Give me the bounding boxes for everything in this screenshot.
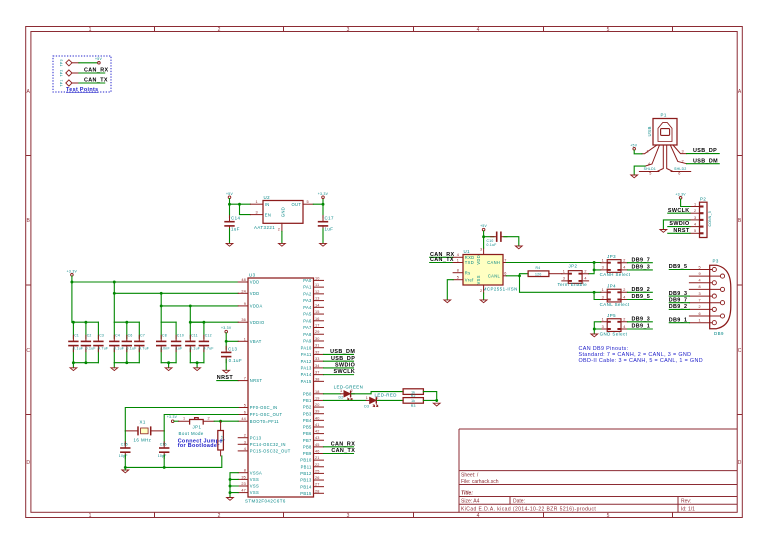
- svg-text:C14: C14: [231, 215, 241, 220]
- wire CANL to JP4 pin3: [594, 292, 601, 299]
- svg-text:5: 5: [694, 229, 696, 233]
- wire JP4 out 4: [628, 299, 653, 301]
- test point TP2: [59, 69, 79, 76]
- junction: [163, 466, 166, 469]
- svg-text:27: 27: [315, 483, 320, 487]
- svg-text:1: 1: [89, 27, 92, 33]
- junction: [189, 321, 192, 324]
- svg-text:C10: C10: [487, 239, 494, 243]
- svg-text:4: 4: [623, 266, 625, 270]
- wire CANH to JP3 pin3 / JP2: [589, 263, 601, 274]
- U3 pin 21 PB10: [300, 456, 323, 463]
- svg-text:3: 3: [682, 149, 684, 153]
- junction: [160, 292, 163, 295]
- svg-text:CANL: CANL: [488, 273, 501, 278]
- ground: [433, 403, 440, 406]
- svg-text:Rev:: Rev:: [681, 499, 691, 505]
- svg-text:13: 13: [315, 297, 320, 301]
- P3 pin 2: [689, 305, 712, 309]
- svg-text:VSS: VSS: [250, 477, 259, 482]
- svg-text:38: 38: [315, 377, 320, 381]
- svg-text:1: 1: [602, 318, 604, 322]
- wire LED to R2: [351, 392, 403, 394]
- wire group 4 gnd stub: [196, 363, 198, 368]
- wire C10 to gnd: [504, 237, 519, 246]
- wire R3 to gnd: [423, 399, 436, 401]
- junction: [125, 321, 128, 324]
- wire VBUS: [634, 150, 642, 154]
- wire USB_DP: [687, 153, 720, 155]
- svg-text:31: 31: [315, 344, 320, 348]
- svg-text:D: D: [26, 460, 30, 466]
- test point TP1: [59, 79, 79, 86]
- junction: [238, 203, 241, 206]
- svg-text:0.1uF: 0.1uF: [487, 243, 497, 247]
- svg-text:PB8: PB8: [303, 444, 312, 449]
- svg-text:IN: IN: [265, 202, 270, 207]
- junction: [113, 292, 116, 295]
- svg-text:PB11: PB11: [301, 464, 312, 469]
- svg-text:VDD: VDD: [250, 280, 260, 285]
- svg-text:3: 3: [602, 295, 604, 299]
- junction: [72, 361, 75, 364]
- svg-text:C1: C1: [74, 334, 79, 338]
- svg-text:PA15: PA15: [301, 379, 312, 384]
- wire CANL: [506, 274, 600, 293]
- ground: [591, 334, 598, 337]
- svg-text:PB12: PB12: [300, 471, 312, 476]
- svg-text:120: 120: [535, 272, 542, 276]
- ground: [444, 300, 451, 303]
- svg-text:VDD: VDD: [250, 291, 260, 296]
- svg-text:MCP2551-I/SN: MCP2551-I/SN: [483, 287, 518, 292]
- junction: [593, 291, 596, 294]
- resistor R3: [403, 398, 423, 409]
- U3 pin 8 VSSA: [238, 469, 262, 476]
- svg-text:1: 1: [647, 150, 649, 154]
- svg-text:+5V: +5V: [480, 224, 487, 228]
- wire SWCLK: [324, 374, 354, 376]
- svg-text:USB_DP: USB_DP: [331, 356, 355, 362]
- svg-text:File: carhack.sch: File: carhack.sch: [461, 479, 499, 485]
- svg-text:STM32F042C6T6: STM32F042C6T6: [245, 499, 286, 504]
- svg-text:5: 5: [699, 265, 701, 269]
- svg-text:PB13: PB13: [300, 478, 312, 483]
- svg-text:DB9_1: DB9_1: [669, 317, 688, 323]
- U3 pin 33 PA12: [301, 357, 324, 364]
- power +5V: [95, 57, 102, 64]
- svg-text:15: 15: [315, 310, 320, 314]
- wire VSS rail: [230, 473, 238, 498]
- svg-text:PA3: PA3: [303, 298, 312, 303]
- U3 pin 9 VDDA: [238, 302, 262, 309]
- svg-text:1uF: 1uF: [231, 227, 240, 232]
- svg-text:18: 18: [315, 390, 320, 394]
- svg-text:6: 6: [504, 272, 506, 276]
- svg-text:Test Points: Test Points: [66, 87, 99, 93]
- svg-text:5: 5: [649, 172, 651, 176]
- wire CAN_RX: [430, 256, 453, 258]
- svg-text:CANL Select: CANL Select: [600, 302, 630, 307]
- svg-text:1: 1: [256, 200, 258, 204]
- junction: [219, 420, 222, 423]
- svg-text:3: 3: [694, 216, 696, 220]
- svg-text:Size: A4: Size: A4: [461, 499, 480, 505]
- junction: [593, 328, 596, 331]
- U3 pin 37 PA14: [301, 371, 324, 378]
- wire DB9 pin 7: [669, 302, 689, 304]
- svg-text:TP1: TP1: [59, 79, 63, 86]
- svg-text:37: 37: [315, 371, 320, 375]
- svg-text:VDD: VDD: [476, 255, 481, 265]
- svg-text:2: 2: [351, 389, 353, 393]
- wire VDD rail 1: [72, 276, 238, 322]
- svg-text:C8: C8: [162, 334, 167, 338]
- svg-text:PB3: PB3: [303, 411, 312, 416]
- svg-text:23: 23: [241, 482, 246, 486]
- wire group 3 gnd stub: [168, 363, 170, 368]
- svg-text:0.1uF: 0.1uF: [86, 346, 96, 350]
- svg-text:+3.3V: +3.3V: [67, 269, 78, 273]
- svg-text:D2: D2: [339, 396, 344, 400]
- svg-text:SHLD2: SHLD2: [674, 167, 686, 171]
- U3 pin 25 PB12: [300, 469, 323, 476]
- wire C17 to gnd: [322, 229, 324, 243]
- wire CAN_TX: [324, 453, 354, 455]
- svg-text:9: 9: [244, 302, 246, 306]
- svg-text:32: 32: [315, 350, 320, 354]
- svg-text:4: 4: [477, 513, 480, 519]
- svg-text:DB9_7: DB9_7: [632, 257, 651, 263]
- svg-text:3: 3: [347, 27, 350, 33]
- U3 pin 11 PA1: [303, 283, 323, 290]
- U3 pin 30 PA9: [303, 337, 323, 344]
- svg-text:VSS: VSS: [250, 484, 259, 489]
- svg-text:6: 6: [244, 411, 246, 415]
- svg-text:0.1uF: 0.1uF: [73, 346, 83, 350]
- svg-text:1: 1: [602, 288, 604, 292]
- svg-text:36: 36: [241, 318, 246, 322]
- svg-text:6: 6: [699, 312, 701, 316]
- U3 pin 23 VSS: [238, 482, 259, 489]
- svg-text:C15: C15: [121, 443, 128, 447]
- U3 pin 45 PB8: [303, 443, 324, 450]
- capacitor C10: [171, 322, 184, 363]
- svg-text:5: 5: [457, 276, 459, 280]
- wire DB9 pin 1: [669, 322, 689, 324]
- svg-text:PA1: PA1: [303, 285, 312, 290]
- svg-text:JP1: JP1: [193, 425, 202, 430]
- svg-text:35: 35: [241, 475, 246, 479]
- svg-text:2: 2: [480, 289, 482, 293]
- svg-text:39: 39: [315, 410, 320, 414]
- svg-text:+5V: +5V: [95, 57, 102, 61]
- wire cap group 3 rails: [161, 322, 176, 363]
- junction: [70, 281, 73, 284]
- wire Vref to gnd: [447, 280, 453, 300]
- wire JP1 to BOOT0: [214, 420, 238, 422]
- svg-text:7: 7: [244, 377, 246, 381]
- svg-text:12: 12: [315, 290, 320, 294]
- svg-text:TP2: TP2: [59, 69, 63, 76]
- diode D2 LED-GREEN: [334, 385, 364, 400]
- svg-text:48: 48: [241, 278, 246, 282]
- svg-text:CAN_RX: CAN_RX: [331, 441, 355, 447]
- svg-text:42: 42: [315, 430, 320, 434]
- svg-text:Term Enable: Term Enable: [558, 282, 588, 287]
- U3 pin 16 PA6: [303, 317, 323, 324]
- svg-text:PB14: PB14: [300, 484, 312, 489]
- junction: [229, 491, 232, 494]
- junction: [229, 478, 232, 481]
- ground: [194, 368, 201, 371]
- wire VDDA rail: [161, 293, 238, 322]
- wire C14 to gnd: [229, 229, 231, 243]
- U3 pin 27 PB14: [300, 483, 323, 490]
- resistor R1: [218, 421, 224, 456]
- svg-text:0.1uF: 0.1uF: [190, 346, 200, 350]
- svg-text:3: 3: [244, 440, 246, 444]
- svg-text:2: 2: [623, 318, 625, 322]
- svg-text:4: 4: [623, 295, 625, 299]
- svg-text:10pF: 10pF: [119, 454, 128, 458]
- ground: [223, 370, 230, 373]
- svg-text:PB0: PB0: [303, 391, 312, 396]
- U3 pin 48 VDD: [238, 278, 259, 285]
- ground: [111, 368, 118, 371]
- svg-text:1: 1: [694, 202, 696, 206]
- junction: [593, 268, 596, 271]
- svg-text:DB9: DB9: [714, 331, 724, 336]
- wire R2 to gnd: [423, 392, 436, 402]
- wire USB gnd: [634, 166, 645, 175]
- junction: [229, 485, 232, 488]
- ground: [279, 243, 286, 246]
- connector P2: [690, 196, 712, 237]
- svg-text:1: 1: [340, 389, 342, 393]
- svg-text:C10: C10: [177, 334, 184, 338]
- junction: [518, 274, 521, 277]
- svg-text:21: 21: [315, 456, 320, 460]
- svg-text:+3.3V: +3.3V: [167, 415, 178, 419]
- svg-text:DB9_3: DB9_3: [632, 265, 651, 271]
- svg-text:CANH Select: CANH Select: [600, 272, 631, 277]
- svg-text:2: 2: [623, 259, 625, 263]
- svg-text:R4: R4: [536, 266, 541, 270]
- U3 pin 10 PA0: [303, 276, 323, 283]
- svg-text:VDDA: VDDA: [250, 304, 263, 309]
- svg-text:2: 2: [584, 270, 586, 274]
- svg-text:1: 1: [244, 337, 246, 341]
- svg-text:5: 5: [607, 27, 610, 33]
- ground: [227, 498, 234, 501]
- capacitor C16: [158, 431, 170, 458]
- svg-text:PA0: PA0: [303, 278, 312, 283]
- svg-text:Vref: Vref: [465, 277, 474, 282]
- wire CANH: [506, 262, 600, 264]
- wire JP3 out 2: [628, 262, 653, 264]
- wire VBAT: [226, 333, 238, 349]
- wire EN feed: [240, 204, 251, 214]
- svg-text:20: 20: [315, 403, 320, 407]
- svg-text:10: 10: [315, 276, 320, 280]
- svg-text:USB_DP: USB_DP: [693, 148, 717, 154]
- U3 pin 20 PB2: [303, 403, 324, 410]
- jumper JP1 Boot Mode: [179, 417, 215, 436]
- svg-text:+3.3V: +3.3V: [675, 192, 686, 196]
- svg-text:41: 41: [315, 423, 320, 427]
- U3 pin 47 VSS: [238, 489, 259, 496]
- wire SWCLK: [668, 212, 690, 214]
- wire CAN_RX: [79, 72, 105, 74]
- svg-text:3: 3: [563, 277, 565, 281]
- svg-text:+3.3V: +3.3V: [318, 192, 329, 196]
- jumper JP3 CANH Select: [600, 254, 631, 277]
- junction: [124, 466, 127, 469]
- U3 pin 36 VDDIO: [238, 318, 264, 325]
- svg-text:28: 28: [315, 489, 320, 493]
- svg-text:R3: R3: [411, 404, 416, 408]
- svg-text:C12: C12: [205, 334, 212, 338]
- svg-text:10pF: 10pF: [158, 454, 167, 458]
- svg-text:43: 43: [315, 436, 320, 440]
- svg-text:4.7uF: 4.7uF: [139, 346, 149, 350]
- ground: [515, 246, 522, 249]
- svg-text:PF0-OSC_IN: PF0-OSC_IN: [250, 405, 278, 410]
- op-amp U1 MCP2551-I/SN: [453, 247, 518, 293]
- capacitor C2: [81, 322, 96, 363]
- junction: [160, 304, 163, 307]
- svg-text:SHLD1: SHLD1: [644, 167, 656, 171]
- svg-text:1k: 1k: [411, 399, 415, 403]
- wire GND pin: [281, 231, 283, 243]
- svg-text:24: 24: [241, 289, 246, 293]
- svg-text:PB4: PB4: [303, 418, 312, 423]
- svg-text:PA8: PA8: [303, 332, 312, 337]
- svg-text:U3: U3: [249, 272, 256, 277]
- svg-text:0.1uF: 0.1uF: [229, 358, 242, 363]
- connector P1 USB: [639, 113, 690, 176]
- P3 pin 6: [689, 312, 720, 316]
- capacitor C13: [221, 346, 242, 363]
- svg-text:PA10: PA10: [301, 345, 312, 350]
- svg-text:29: 29: [315, 330, 320, 334]
- wire SWDIO: [324, 367, 354, 369]
- svg-text:C4: C4: [115, 334, 120, 338]
- svg-text:5: 5: [607, 513, 610, 519]
- U3 pin 31 PA10: [301, 344, 324, 351]
- svg-text:PA7: PA7: [303, 325, 312, 330]
- svg-text:TP3: TP3: [59, 59, 63, 66]
- power +3.3V: [221, 326, 232, 333]
- wire NRST: [668, 232, 690, 234]
- svg-text:14: 14: [315, 303, 320, 307]
- svg-text:16: 16: [315, 317, 320, 321]
- U3 pin 15 PA5: [303, 310, 323, 317]
- svg-text:3: 3: [602, 266, 604, 270]
- U3 pin 38 PA15: [301, 377, 324, 384]
- U3 pin 32 PA11: [301, 350, 324, 357]
- U3 pin 24 VDD: [238, 289, 259, 296]
- svg-text:PA13: PA13: [301, 365, 312, 370]
- svg-text:4: 4: [699, 279, 701, 283]
- svg-text:1: 1: [457, 258, 459, 262]
- svg-text:Boot Mode: Boot Mode: [179, 431, 204, 436]
- wire cap group 1 rails: [72, 322, 99, 363]
- diode D3 LED-RED: [364, 393, 397, 409]
- svg-text:22: 22: [315, 463, 320, 467]
- junction: [196, 361, 199, 364]
- svg-text:2: 2: [218, 513, 221, 519]
- wire VDDIO rail: [190, 306, 238, 322]
- svg-text:X1: X1: [140, 419, 146, 424]
- svg-text:PC13: PC13: [250, 435, 262, 440]
- svg-text:2: 2: [682, 160, 684, 164]
- capacitor C11: [185, 322, 200, 363]
- power +3.3V: [167, 415, 178, 422]
- svg-text:SWDIO: SWDIO: [335, 362, 355, 368]
- svg-text:4: 4: [648, 162, 650, 166]
- svg-text:11: 11: [315, 283, 319, 287]
- svg-text:3: 3: [347, 513, 350, 519]
- capacitor C10: [487, 232, 508, 248]
- U3 pin 26 PB13: [300, 476, 323, 483]
- svg-text:2: 2: [623, 288, 625, 292]
- wire PB1 to LED: [324, 399, 367, 401]
- resistor R2: [403, 389, 423, 398]
- svg-text:PB9: PB9: [303, 451, 312, 456]
- wire to JP1: [174, 420, 179, 422]
- power +5V: [480, 224, 487, 231]
- svg-text:P2: P2: [700, 196, 706, 201]
- P3 pin 7: [689, 299, 720, 303]
- svg-text:JP2: JP2: [569, 264, 578, 269]
- wire LED to R3: [377, 399, 403, 401]
- svg-text:3: 3: [602, 325, 604, 329]
- U3 pin 19 PB1: [303, 396, 324, 403]
- op-amp U2 AAT3221: [250, 195, 313, 232]
- junction: [202, 321, 205, 324]
- wire NRST: [217, 380, 238, 382]
- svg-text:U2: U2: [264, 195, 271, 200]
- U3 pin 7 NRST: [238, 377, 262, 384]
- svg-text:1uF: 1uF: [176, 346, 183, 350]
- svg-text:+5V: +5V: [630, 143, 637, 147]
- svg-text:8: 8: [699, 285, 701, 289]
- svg-text:PB5: PB5: [303, 425, 312, 430]
- svg-text:33: 33: [315, 357, 320, 361]
- svg-text:47: 47: [241, 489, 246, 493]
- svg-text:4.7uF: 4.7uF: [98, 346, 108, 350]
- title block: [459, 429, 737, 513]
- power +3.3V: [675, 192, 686, 199]
- svg-text:10nF: 10nF: [161, 346, 170, 350]
- svg-text:Title:: Title:: [461, 490, 473, 496]
- wire CAN_TX: [430, 262, 453, 264]
- U3 pin 28 PB15: [300, 489, 323, 496]
- U3 pin 43 PB7: [303, 436, 324, 443]
- svg-text:for Bootloader: for Bootloader: [178, 443, 221, 449]
- U3 pin 14 PA4: [303, 303, 323, 310]
- svg-text:4: 4: [694, 223, 696, 227]
- svg-text:PB6: PB6: [303, 431, 312, 436]
- U3 pin 41 PB5: [303, 423, 324, 430]
- svg-text:4: 4: [477, 27, 480, 33]
- junction: [189, 304, 192, 307]
- wire to +5V: [79, 62, 98, 64]
- ground: [320, 243, 327, 246]
- svg-text:PA14: PA14: [301, 372, 312, 377]
